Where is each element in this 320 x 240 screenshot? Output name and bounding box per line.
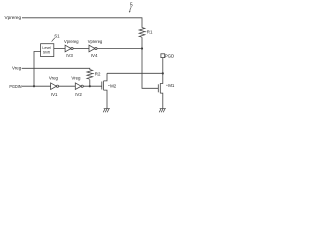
svg-text:R2: R2 [95,71,101,76]
node junction PGD [162,72,164,74]
wire R1 bottom to M1 gate [142,37,158,88]
node junction IV4 output on R1 line [141,47,143,49]
wire level shifter to IV3 [54,48,65,50]
svg-text:5: 5 [130,2,133,8]
inverter IV1 [49,76,59,97]
svg-text:Level: Level [42,46,51,50]
transistor M1 [158,73,175,108]
wire IV2 to M2 gate [83,85,102,87]
wire IV3 to IV4 [73,48,89,50]
callout 5 [129,2,133,12]
ground under M1 [159,109,166,113]
ground under M2 [103,109,110,113]
wire Vprereg rail [22,18,142,28]
inverter IV2 [71,76,83,97]
wire R2 bottom to PGDIN row [89,80,91,87]
inverter IV3 [64,39,79,58]
wire IV1 to IV2 [59,85,76,87]
svg-text:Vreg: Vreg [71,76,81,81]
svg-text:IV2: IV2 [75,92,82,97]
svg-text:Vprereg: Vprereg [64,39,79,44]
svg-text:Vreg: Vreg [12,66,22,71]
svg-text:IV1: IV1 [51,92,58,97]
level shifter S1 [41,33,61,56]
wire PGD node up to pad [162,58,164,74]
node junction PGDIN to level shifter [33,85,35,87]
svg-text:Shift: Shift [43,51,50,55]
svg-text:Vprereg: Vprereg [5,15,22,21]
node junction R2 to M2 gate line [89,85,91,87]
pin PGD [161,53,174,58]
svg-text:M2: M2 [110,83,117,88]
svg-text:S1: S1 [54,33,60,38]
wire M2 drain to PGD node [107,72,163,74]
wire level shifter input from PGDIN [34,52,41,87]
svg-text:M1: M1 [168,83,175,88]
svg-text:IV4: IV4 [91,53,98,58]
svg-text:IV3: IV3 [66,53,73,58]
svg-text:PGDIN: PGDIN [9,84,21,89]
svg-text:PGD: PGD [165,53,175,58]
inverter IV4 [88,39,103,58]
wire IV4 output to R1 node [97,48,142,50]
svg-text:R1: R1 [147,30,153,35]
wire PGDIN to IV1 [22,85,51,87]
resistor R2 [87,70,101,80]
transistor M2 [102,73,117,108]
wire Vreg rail to R2 [22,68,90,70]
resistor R1 [139,28,153,38]
svg-text:Vreg: Vreg [49,76,59,81]
svg-text:Vprereg: Vprereg [88,39,103,44]
